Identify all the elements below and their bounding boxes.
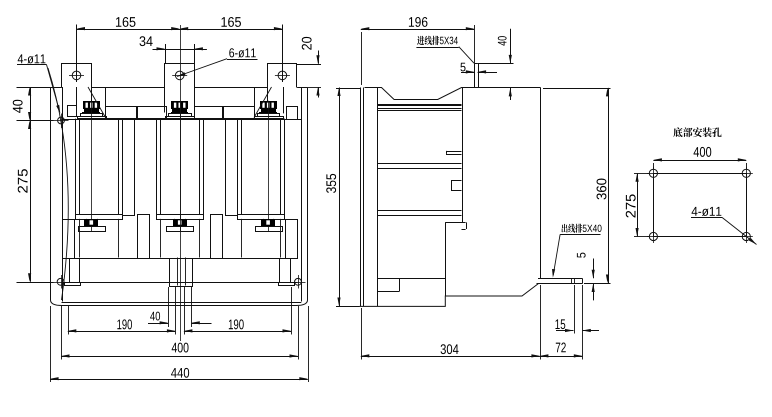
left mounting hole: [57, 278, 64, 285]
top rim block between pole1 pocket and pole2 pocket (left): [106, 107, 137, 119]
top rim block between pole2 and pole3 (left): [195, 107, 223, 119]
bottom dimension 400: [61, 356, 298, 358]
panel dimension 400: [653, 160, 746, 162]
pole 3 bottom terminal plate: [256, 227, 283, 232]
pole 2 bottom terminal bolt shaft: [174, 219, 176, 226]
center foot block: [170, 259, 193, 287]
side view: internal double lines row 1: [377, 104, 461, 106]
pole 3 tab riser: [283, 87, 285, 113]
right mounting hole: [295, 278, 302, 285]
panel label 4-o11 with leader: [692, 207, 722, 216]
pole 2 bottom terminal plate: [167, 227, 194, 232]
pole 1 bottom terminal nut (black): [84, 219, 98, 226]
tab hole circle at x=76.5: [72, 71, 81, 80]
mounting pattern corner holes: [649, 169, 657, 177]
dimension text 20 rotated: [302, 37, 312, 50]
pole 1 bottom terminal plate: [79, 227, 106, 232]
side view: inner vertical wall right: [462, 88, 464, 223]
top rim block right end: [287, 107, 298, 120]
front view: top terminal tab pole 1: [62, 64, 92, 113]
base rail bottom edge: [62, 282, 298, 284]
inter-pole barrier plate B1: [138, 215, 150, 259]
bottom dimension 40 center: [148, 323, 168, 325]
side view: inner vertical to bottom: [445, 222, 447, 296]
dimension text 34: [139, 36, 152, 46]
tab hole circle at x=282.4: [278, 71, 287, 80]
inter-pole barrier plate A1: [123, 120, 135, 216]
label 4-o11 with two leaders: [18, 54, 46, 63]
pole 2 bottom terminal nut (black): [173, 219, 187, 226]
pole 1 nut washer (black): [84, 109, 99, 112]
pole 1 cylinder bottom cap: [76, 215, 123, 220]
pole 1 conductor centerline: [91, 101, 93, 232]
pole 2 vacuum interrupter cylinder: [156, 119, 158, 215]
pole 3 conductor centerline: [268, 101, 270, 232]
bottom dimension 440: [50, 379, 308, 381]
side view: right edge: [540, 88, 542, 279]
dimension 5 busbar thickness top: [460, 63, 465, 72]
pole 3 nut washer (black): [261, 109, 276, 112]
side view: step block lower left: [377, 278, 445, 280]
leader diagonal through pole1 nut: [88, 87, 106, 118]
bottom dimension row 190 right: [184, 331, 291, 333]
dimension 355 between views: [339, 88, 341, 307]
front view: contactor housing outer outline: [51, 88, 308, 306]
top rim step block at left wall: [68, 106, 77, 117]
dimension 196 top: [361, 29, 475, 31]
dimension 304 and 72 bottom: [361, 356, 540, 358]
pole 3 cylinder bottom cap: [238, 215, 285, 220]
pole 2 conductor centerline: [180, 101, 182, 232]
outgoing busbar hole lines: [571, 279, 573, 283]
side view: internal double lines row 3: [377, 163, 461, 165]
side view: short double tab on wall: [446, 151, 462, 153]
mounting pattern rectangle: [654, 174, 747, 237]
front view: top terminal tab pole 2: [165, 64, 195, 113]
pole 1 washer plate upper: [81, 114, 103, 117]
dimension 360 right side: [608, 88, 610, 283]
pole 2 washer plate lower: [166, 117, 195, 119]
front view: housing inner left wall: [62, 87, 64, 302]
extension line pole3 hole center: [282, 25, 284, 83]
pole 1 lower body side walls: [79, 219, 81, 258]
right foot flange: [279, 283, 295, 286]
side view: internal double lines row 2: [377, 108, 461, 110]
pole 1 tab riser: [76, 87, 78, 113]
left wall lower block: [63, 220, 75, 259]
dimension 275 left side: [30, 121, 32, 282]
outgoing busbar (bottom right): [537, 279, 583, 284]
front view: housing top edge segments between tabs: [50, 87, 62, 89]
dimension text 165 right: [221, 17, 241, 27]
front view: top terminal tab pole 3: [268, 64, 297, 113]
front view: housing inner right wall: [301, 87, 303, 302]
top rim block between pole1 and pole2 (right): [138, 107, 167, 119]
pole 1 bottom terminal bolt shaft: [86, 219, 88, 226]
pole 3 lower body side walls: [241, 219, 243, 258]
pole 2 full centerline: [180, 25, 182, 341]
label bottom mounting holes (Chinese): [673, 127, 682, 137]
pole 1 pocket right wall: [105, 87, 107, 113]
pole 2 washer plate upper: [169, 114, 192, 117]
side view: bottom outline with outgoing busbar chamfer: [360, 284, 539, 307]
dimension 40 right of busbar: [478, 63, 514, 65]
extension lines for 190 rows: [68, 306, 70, 335]
side view: internal double lines row 4: [377, 210, 461, 212]
pole 2 cylinder bottom cap: [157, 215, 204, 220]
dimension 40 left side: [17, 87, 51, 89]
pole 1 washer plate lower: [78, 117, 107, 119]
label incoming busbar 5X34: [417, 36, 424, 45]
side view: second wall vertical: [377, 88, 379, 307]
base rail top edge: [69, 258, 290, 260]
right wall lower block: [286, 220, 298, 259]
extension line pole1 hole center: [76, 25, 78, 83]
label outgoing busbar 5X40: [562, 224, 568, 233]
side view: lower ledge under wall: [445, 222, 465, 224]
front view: housing inner bottom line: [62, 302, 302, 304]
pole 3 top terminal nut (black): [260, 101, 277, 109]
dimension text 40 left rotated: [13, 100, 23, 113]
right foot block: [280, 259, 291, 283]
pole 3 washer plate lower: [255, 117, 284, 119]
pole 3 bottom terminal nut (black): [261, 219, 275, 226]
top rim block between pole2 and pole3 (right): [224, 107, 255, 119]
inter-pole barrier plate A2: [226, 120, 238, 216]
dimension 34 line with outside arrows: [153, 49, 207, 51]
pole 2 top terminal nut (black): [171, 101, 188, 109]
left foot block: [70, 259, 80, 283]
bottom dimension row 190 left: [68, 331, 176, 333]
leader diagonal through pole3 nut: [254, 87, 272, 118]
dimension 20 right top: [297, 64, 321, 66]
incoming busbar (top): [474, 63, 476, 87]
pole 3 pocket left wall: [254, 87, 256, 113]
dimension 165-165 line: [77, 29, 283, 31]
inter-pole barrier plate B2: [211, 215, 223, 259]
pole 2 lower body side walls: [160, 219, 162, 258]
side view: notch cut in wall: [452, 181, 462, 191]
panel dimension 275: [637, 173, 639, 236]
tab hole circle at x=179.7: [175, 71, 184, 80]
pole 1 vacuum interrupter cylinder: [75, 119, 77, 215]
dimension text 275 left rotated: [18, 169, 28, 193]
pole 2 nut washer (black): [172, 109, 187, 112]
pole 3 vacuum interrupter cylinder: [237, 119, 239, 215]
pole 3 bottom terminal bolt shaft: [263, 219, 265, 226]
pole 1 top terminal nut (black): [83, 101, 100, 109]
dimension text 165 left: [116, 17, 136, 27]
front view upper mounting hole: [58, 117, 65, 124]
left foot flange: [65, 283, 81, 286]
label 6-o11 with leader: [229, 48, 255, 57]
extension lines for 34: [165, 44, 167, 64]
front view: cylinder zone top line: [62, 119, 302, 121]
pole 3 washer plate upper: [258, 114, 280, 117]
side view: front plate left wall: [360, 88, 362, 307]
side view: top edge with chamfered valley: [365, 88, 541, 100]
dimension 5 busbar thickness bottom: [593, 259, 595, 279]
dimension 15: [556, 330, 574, 332]
center foot slot lines: [177, 258, 179, 286]
